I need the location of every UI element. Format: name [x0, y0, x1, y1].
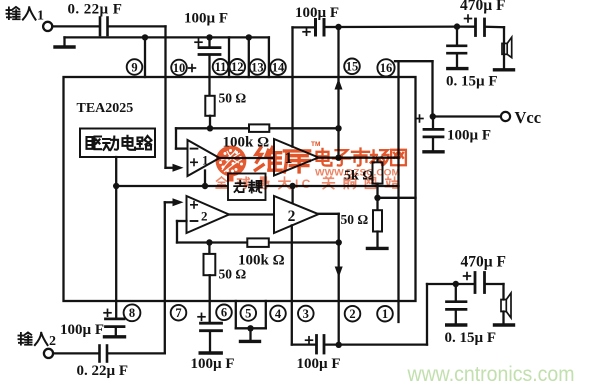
svg-text:470µ F: 470µ F [460, 0, 506, 14]
label 100uF C7 [191, 356, 235, 372]
pin 1 [377, 306, 393, 322]
label TEA2025 [77, 101, 134, 116]
label 100uF C6 [447, 127, 491, 143]
wire C1 to pin10 drop [109, 25, 166, 27]
capacitor C5 0.15uF [448, 27, 467, 69]
wire A1 underside to mid rail [204, 171, 206, 187]
svg-text:50 Ω: 50 Ω [219, 267, 247, 282]
resistor R1 50 ohm [205, 96, 214, 129]
svg-text:5: 5 [245, 306, 251, 320]
svg-text:I C: I C [295, 177, 311, 191]
pin 9 [127, 59, 143, 75]
wire arrow into A2 + input [165, 198, 184, 206]
label + C3 [303, 28, 310, 35]
svg-text:100µ F: 100µ F [447, 127, 491, 143]
watermark logo disc [216, 141, 406, 191]
label 100k R2 [223, 134, 270, 150]
wire C9 to pin7 [109, 352, 165, 354]
svg-text:50 Ω: 50 Ω [341, 212, 369, 227]
op-amp A2 preamp ch2 [187, 196, 230, 233]
node input terminal 输入1 [43, 22, 52, 31]
wire node to IC right edge [378, 197, 416, 199]
pin 2 [345, 306, 361, 322]
wire pin3 vertical [291, 225, 293, 344]
wire feedback rail ch2 [177, 239, 339, 245]
wire ground rail y37 [65, 36, 269, 38]
label + C7 [198, 313, 205, 320]
svg-text:2: 2 [288, 208, 296, 225]
svg-text:TM: TM [311, 141, 320, 148]
capacitor C2 100uF pin11 [199, 34, 220, 96]
wire pin16 vertical [397, 61, 399, 322]
label 100uF C10 [297, 356, 341, 372]
capacitor C10 100uF pin2 [317, 336, 428, 354]
capacitor C9 0.22uF [100, 346, 108, 362]
label Vcc [515, 108, 542, 127]
svg-text:0. 15µ F: 0. 15µ F [446, 74, 498, 90]
wire pin14 [268, 37, 270, 77]
wire C3 to amp1 top edge [291, 27, 293, 146]
wire to bottom output network [427, 284, 455, 345]
label 输入1 [6, 7, 44, 24]
label A1 minus [191, 148, 198, 150]
svg-text:2: 2 [49, 334, 56, 349]
svg-text:2: 2 [349, 307, 355, 321]
wire top output to C4 [335, 23, 460, 30]
svg-text:50 Ω: 50 Ω [219, 91, 247, 106]
resistor R6 50 ohm [204, 243, 216, 323]
wire decoupling mid rail [113, 183, 399, 189]
label 5k R3 [344, 169, 374, 184]
label + C10 [306, 337, 313, 344]
capacitor C12 0.15uF [447, 284, 467, 325]
wire feedback rail ch1 [176, 125, 339, 131]
label 100uF C3 [295, 5, 339, 21]
wire 5k node down [374, 186, 380, 210]
svg-text:100µ F: 100µ F [297, 356, 341, 372]
pin 15 [344, 59, 360, 75]
label 100uF C8 [60, 322, 104, 338]
wire A2 out to power amp 2 [229, 213, 274, 215]
label A1 number 1 [202, 153, 209, 168]
op-amp A1 preamp ch1 [188, 140, 220, 176]
svg-text:100µ F: 100µ F [60, 322, 104, 338]
pin 4 [270, 306, 286, 322]
speaker SP1 [495, 27, 514, 70]
watermark 全球最大IC采购网站 [216, 177, 397, 191]
wire pin9 [142, 34, 148, 77]
pin 13 [250, 59, 266, 75]
svg-text:1: 1 [202, 153, 209, 168]
svg-text:www.cntronics.com: www.cntronics.com [407, 363, 575, 386]
label + pin10 [189, 65, 196, 72]
speaker SP2 [495, 284, 514, 325]
svg-text:16: 16 [380, 61, 393, 75]
wire rail2 to A2 inverting input [177, 221, 187, 243]
capacitor C4 470uF [458, 19, 504, 36]
svg-text:9: 9 [131, 60, 137, 74]
svg-text:15: 15 [346, 60, 359, 74]
pin 8 [124, 304, 141, 321]
svg-text:11: 11 [215, 60, 227, 74]
svg-text:100µ F: 100µ F [191, 356, 235, 372]
svg-text:12: 12 [231, 60, 244, 74]
node input terminal 输入2 [44, 349, 53, 358]
wire A1 out to power amp 1 [220, 157, 275, 159]
svg-text:2: 2 [201, 209, 208, 224]
wire rail1 to A1 inverting input [176, 128, 188, 148]
pin 6 [216, 305, 232, 321]
svg-text:0. 22µ F: 0. 22µ F [68, 1, 123, 17]
svg-text:7: 7 [175, 306, 181, 320]
svg-text:TEA2025: TEA2025 [77, 101, 134, 116]
watermark www.cntronics.com [407, 363, 575, 386]
svg-text:0. 15µ F: 0. 15µ F [445, 330, 497, 346]
label + C6 [416, 115, 423, 122]
svg-text:4: 4 [275, 307, 282, 321]
svg-text:0. 22µ F: 0. 22µ F [77, 363, 129, 379]
svg-text:10: 10 [173, 61, 186, 75]
wire pin12 [228, 37, 230, 77]
label 100k R5 [238, 253, 285, 269]
resistor R3 5k [373, 158, 383, 186]
capacitor C6 100uF Vcc [424, 117, 443, 152]
wire input1 to C1 [52, 25, 98, 27]
node Vcc terminal [430, 112, 511, 121]
wire pin16 branch [395, 61, 433, 116]
label A2 minus [191, 220, 198, 222]
label 0.22uF top [68, 1, 123, 17]
ground top-left [55, 37, 74, 47]
svg-text:100µ F: 100µ F [295, 5, 339, 21]
label A2 plus [191, 202, 197, 208]
resistor R5 100k [247, 238, 268, 247]
pin 11 [213, 59, 229, 75]
label 50ohm R4 [341, 212, 369, 227]
pin 16 [377, 59, 394, 76]
label A2 number 2 [201, 209, 208, 224]
label power amp 2 number [288, 208, 296, 225]
label + C11 [464, 273, 471, 280]
label 50ohm R6 [219, 267, 247, 282]
op-amp power amp 1 [274, 139, 319, 176]
label 输入2 [18, 332, 56, 349]
resistor R4 50 ohm [367, 210, 387, 248]
wire arrow into A1 + input [166, 164, 184, 172]
wire pin15 vertical [335, 27, 343, 158]
watermark 电子市场网 [317, 149, 406, 166]
capacitor C8 100uF pin8 [105, 319, 125, 337]
svg-text:1: 1 [37, 9, 44, 24]
label 0.15uF C12 [445, 330, 497, 346]
pin 14 [270, 59, 286, 75]
watermark 维库 [255, 141, 320, 172]
pin 3 [298, 306, 314, 322]
watermark WWW.DZSC.COM [315, 168, 400, 179]
pin 7 [171, 305, 187, 321]
resistor R2 100k [249, 124, 269, 131]
label 100uF C2 [184, 10, 228, 26]
capacitor C7 100uF pin6 [200, 323, 221, 353]
block driver circuit 驱动电路 [80, 129, 155, 158]
block decoupling 去耦 [228, 174, 266, 201]
capacitor C1 0.22uF [100, 18, 108, 36]
svg-text:6: 6 [221, 306, 227, 320]
pin 10 [171, 60, 187, 76]
pin 12 [230, 59, 246, 75]
label + C8 [104, 309, 111, 316]
wire driver to mid rail to pin8 [115, 157, 117, 318]
label + C4 [465, 15, 472, 22]
wire pin13 [246, 34, 252, 77]
op-amp power amp 2 [274, 196, 319, 233]
wire pin5 to ground [236, 301, 266, 341]
label 470uF C4 [460, 0, 506, 14]
label 470uF C11 [461, 254, 507, 271]
svg-text:1: 1 [382, 307, 388, 321]
label A1 plus [191, 159, 197, 165]
svg-text:Vcc: Vcc [515, 108, 542, 127]
wire pin3 bottom run [292, 343, 315, 345]
wire pin7 vertical [164, 202, 166, 353]
svg-text:14: 14 [272, 61, 285, 75]
wire amp2 output to pin2 [319, 214, 343, 346]
label 50ohm R1 [219, 91, 247, 106]
capacitor C3 100uF top [293, 20, 339, 36]
pin 5 [241, 305, 257, 321]
svg-text:470µ F: 470µ F [461, 254, 507, 271]
svg-text:13: 13 [251, 60, 264, 74]
op-amp IC U1 TEA2025 outline [64, 77, 416, 301]
label 0.15uF C5 [446, 74, 498, 90]
label + C2 [195, 39, 202, 46]
svg-text:3: 3 [303, 307, 309, 321]
wire input2 to C9 [53, 352, 97, 354]
wire pin10 vertical into IC [164, 26, 166, 167]
label 0.22uF bottom [77, 363, 129, 379]
capacitor C11 470uF [453, 273, 504, 293]
wire output rail ch1 [319, 155, 399, 161]
label power amp 1 number [285, 150, 293, 167]
wire mid rail to power amp 2 [291, 186, 293, 204]
svg-text:100µ F: 100µ F [184, 10, 228, 26]
svg-text:8: 8 [129, 306, 135, 320]
